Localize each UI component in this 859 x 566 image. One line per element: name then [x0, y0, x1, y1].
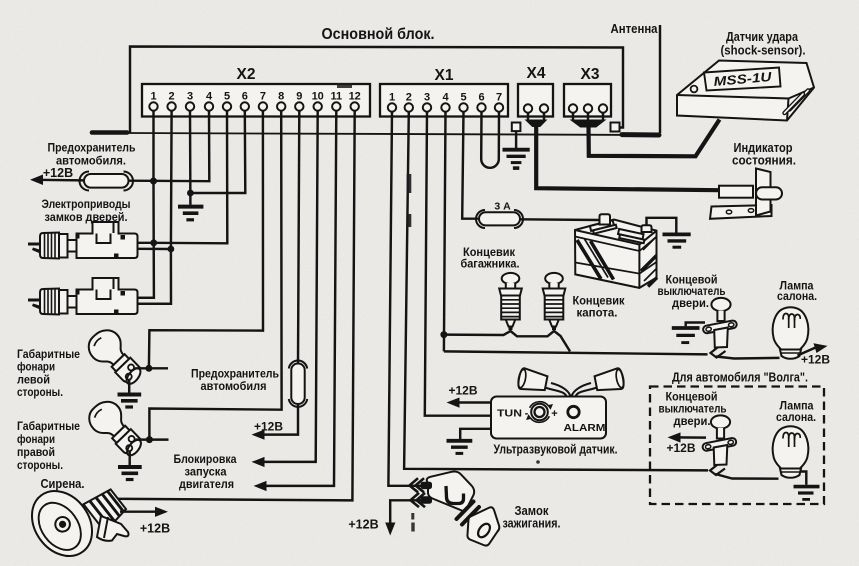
connector X4 — [518, 65, 553, 117]
connector X2 — [142, 66, 370, 117]
svg-text:двери.: двери. — [674, 416, 711, 428]
label door switch (upper) — [658, 275, 726, 311]
svg-text:двигателя: двигателя — [179, 477, 234, 491]
label salon lamp (upper) — [777, 281, 817, 304]
svg-text:7: 7 — [496, 92, 502, 104]
detachable arrows at ignition lock — [410, 478, 426, 507]
wire X2 pin9 to fuse F2 — [298, 111, 299, 363]
svg-text:двери.: двери. — [672, 298, 709, 310]
svg-text:правой: правой — [17, 447, 55, 459]
label fuse F2 — [191, 367, 279, 394]
ground at lamp 2 — [118, 467, 142, 480]
wire X2 pin2 to actuators — [137, 111, 172, 304]
wire X1 pin4 to switches node — [444, 112, 446, 352]
svg-text:5: 5 — [460, 92, 466, 104]
svg-text:X2: X2 — [237, 66, 256, 83]
svg-text:5: 5 — [224, 91, 230, 103]
+12V arrow at Volga door switch — [666, 432, 706, 455]
svg-text:зажигания.: зажигания. — [503, 517, 561, 531]
door switch (upper) — [702, 298, 737, 358]
svg-text:багажника.: багажника. — [461, 259, 520, 271]
trunk switch — [499, 273, 522, 330]
svg-text:(shock-sensor).: (shock-sensor). — [721, 43, 806, 58]
node junction pin3/pin6 — [187, 190, 194, 197]
main block outline — [92, 47, 623, 133]
svg-text:ALARM: ALARM — [564, 422, 606, 434]
svg-text:состояния.: состояния. — [732, 154, 796, 168]
door lock actuator 1 — [28, 222, 171, 259]
svg-text:Предохранитель: Предохранитель — [48, 141, 136, 155]
bus wire (antenna lead along block bottom) — [126, 133, 659, 135]
svg-text:10: 10 — [312, 91, 324, 103]
svg-text:Концевой: Концевой — [666, 275, 718, 287]
svg-text:+12В: +12В — [348, 518, 378, 532]
hood switch — [543, 273, 566, 330]
ground at X2 pin3 — [178, 207, 203, 220]
svg-text:+12В: +12В — [43, 166, 73, 180]
wire X2 pin8 to lamp 2 — [149, 111, 281, 440]
svg-text:Электроприводы: Электроприводы — [42, 197, 131, 211]
svg-text:Для автомобиля "Волга".: Для автомобиля "Волга". — [672, 371, 808, 385]
label shock sensor — [721, 29, 806, 58]
svg-text:2: 2 — [406, 92, 412, 104]
scan artifacts — [407, 174, 540, 532]
fuse F2 (предохранитель автомобиля middle) — [289, 361, 307, 407]
svg-text:капота.: капота. — [577, 308, 618, 320]
ground at Volga salon lamp — [794, 487, 820, 500]
siren — [20, 479, 130, 566]
svg-text:X3: X3 — [581, 66, 600, 83]
svg-text:салона.: салона. — [776, 412, 816, 424]
wire X2 pin10 with arrow (blocking row 1) — [252, 111, 318, 467]
node junction lamp1 — [145, 365, 152, 372]
svg-text:1: 1 — [150, 91, 156, 103]
wire X2 pin7 to lamp 1 — [149, 111, 263, 369]
svg-text:автомобиля.: автомобиля. — [56, 154, 126, 168]
svg-text:Концевой: Концевой — [666, 392, 718, 404]
connector tab and ground right of X1 — [503, 123, 530, 170]
svg-text:TUN: TUN — [497, 408, 522, 420]
marker lamp 2 (right side) — [83, 395, 168, 465]
Volga dashed box — [650, 387, 824, 505]
svg-text:автомобиля: автомобиля — [201, 379, 267, 393]
wire pin4 long feed to door switch — [444, 351, 708, 354]
ultrasonic sensor unit — [491, 368, 625, 439]
svg-text:+12В: +12В — [254, 420, 283, 434]
svg-text:3: 3 — [187, 91, 193, 103]
antenna feed bar — [622, 132, 659, 137]
wire X2 pin12 to siren — [116, 111, 355, 501]
svg-text:1: 1 — [389, 92, 395, 104]
marker lamp 1 (left side) — [83, 324, 168, 393]
svg-text:4: 4 — [442, 92, 449, 104]
svg-text:4: 4 — [206, 91, 213, 103]
shock sensor MSS-1U — [677, 61, 814, 121]
svg-text:выключатель: выключатель — [659, 404, 727, 416]
svg-text:+12В: +12В — [666, 441, 695, 455]
wire salon lamp to ground (Volga) — [800, 472, 807, 485]
ignition lock and key — [421, 471, 500, 545]
antenna wire — [659, 25, 661, 133]
battery — [575, 214, 657, 288]
svg-text:фонари: фонари — [17, 434, 55, 446]
X4 manifold wire to indicator — [525, 113, 720, 191]
fuse 3A — [476, 201, 523, 229]
svg-text:выключатель: выключатель — [658, 286, 726, 298]
wire door switch to salon lamp to +12V arrow — [716, 343, 830, 366]
wire X2 pin1 to fuse junction and actuators — [137, 111, 154, 298]
svg-text:Концевик: Концевик — [463, 247, 515, 259]
label right marker lamps — [17, 421, 80, 472]
svg-text:+12В: +12В — [801, 353, 830, 367]
wire X1 pin3 to ultrasonic sensor — [425, 112, 492, 416]
wire X2 pin5 to actuator 1 — [154, 111, 228, 244]
wire X1 pin5 to fuse 3A — [462, 112, 478, 219]
label Volga box — [672, 371, 808, 385]
wire X2 pin6 to pin3 node — [190, 111, 245, 193]
svg-text:стороны.: стороны. — [17, 387, 63, 399]
status indicator LED with bracket — [710, 169, 782, 219]
label door lock actuators — [42, 197, 131, 224]
label salon lamp (Volga) — [776, 401, 816, 425]
wire pin4 node to trunk and hood switches — [444, 331, 570, 351]
antenna label — [611, 22, 659, 36]
wire Volga door switch to salon lamp — [716, 474, 779, 479]
wire fuse 3A to battery — [520, 218, 599, 221]
label trunk switch — [461, 247, 520, 271]
svg-text:X1: X1 — [435, 67, 454, 84]
svg-text:+12В: +12В — [140, 522, 170, 536]
svg-text:левой: левой — [17, 374, 50, 386]
fuse F1 (предохранитель автомобиля) — [80, 172, 133, 191]
siren label — [41, 477, 85, 491]
svg-text:Сирена.: Сирена. — [41, 477, 85, 491]
label door switch (Volga) — [659, 392, 727, 429]
svg-text:6: 6 — [242, 91, 248, 103]
svg-text:X4: X4 — [527, 65, 546, 82]
+12V arrow from fuse F2 — [252, 405, 299, 440]
wire X1 pin1 to ignition lock — [388, 112, 422, 486]
ground at battery — [663, 234, 691, 247]
connector X1 — [380, 67, 508, 117]
svg-text:+12В: +12В — [448, 384, 477, 398]
wire X2 pin4 to fuse wire — [128, 111, 209, 182]
label left marker lamps — [17, 349, 80, 399]
svg-text:12: 12 — [349, 91, 361, 103]
svg-text:+: + — [551, 408, 557, 420]
salon lamp (upper) — [773, 307, 809, 359]
ground at ultrasonic sensor — [447, 429, 492, 454]
+12V arrow left of fuse F1 — [30, 166, 84, 185]
label hood switch — [573, 296, 625, 320]
svg-text:8: 8 — [278, 91, 284, 103]
ground at upper door switch — [672, 323, 705, 343]
svg-text:Основной блок.: Основной блок. — [322, 26, 435, 43]
salon lamp (Volga) — [773, 426, 809, 478]
node junction actuator1 bottom — [168, 246, 175, 253]
svg-text:9: 9 — [296, 91, 302, 103]
svg-text:Ультразвуковой датчик.: Ультразвуковой датчик. — [494, 442, 618, 457]
svg-text:2: 2 — [169, 91, 175, 103]
wire X1 pin2 to Volga door switch — [404, 112, 708, 471]
svg-text:фонари: фонари — [17, 362, 55, 374]
label status indicator — [732, 141, 796, 168]
label ultrasonic sensor — [494, 442, 618, 457]
connector X3 — [564, 66, 611, 117]
node junction lamp2 — [146, 436, 153, 443]
door switch (Volga) — [702, 415, 737, 475]
jumper loop X1 pins 6-7 — [481, 112, 499, 168]
+12V arrow at siren — [120, 507, 170, 536]
svg-text:Антенна: Антенна — [611, 22, 659, 36]
svg-text:6: 6 — [478, 92, 484, 104]
svg-text:Габаритные: Габаритные — [17, 421, 80, 433]
main block title — [322, 26, 435, 43]
label ignition lock — [503, 504, 561, 531]
node junction actuator1 top — [150, 239, 157, 246]
wire ignition lock second terminal to +12V — [348, 500, 423, 535]
svg-text:Лампа: Лампа — [780, 401, 815, 413]
ground at lamp 1 — [118, 395, 142, 408]
svg-text:11: 11 — [330, 91, 342, 103]
svg-text:3 А: 3 А — [494, 201, 511, 213]
svg-text:Концевик: Концевик — [573, 296, 625, 308]
svg-text:7: 7 — [260, 91, 266, 103]
label fuse F1 — [48, 141, 136, 168]
wire X2 pin11 with arrow (blocking row 2) — [254, 111, 337, 491]
door lock actuator 2 — [28, 278, 171, 315]
wire battery right terminal to ground — [647, 218, 677, 233]
node junction pin1/fuse — [150, 178, 157, 185]
+12V arrow at ultrasonic sensor — [447, 384, 492, 408]
X3 manifold wire to shock sensor — [570, 113, 720, 156]
node junction pin4/trunk switch — [440, 331, 447, 338]
svg-text:Габаритные: Габаритные — [17, 349, 80, 361]
svg-text:салона.: салона. — [777, 291, 817, 303]
label engine start blocking — [174, 452, 237, 491]
wire X2 pin3 to ground — [189, 111, 192, 205]
svg-text:стороны.: стороны. — [17, 460, 63, 472]
svg-text:3: 3 — [424, 92, 430, 104]
